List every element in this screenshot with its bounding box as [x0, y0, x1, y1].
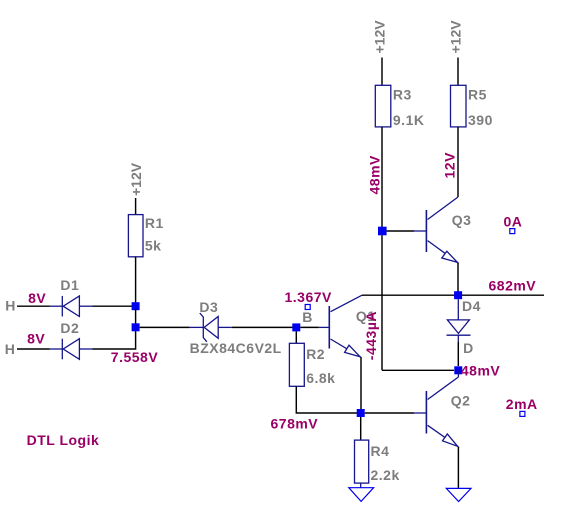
wire horizontal to 48mV node [382, 369, 454, 371]
wire R1 to junction [135, 257, 137, 303]
wire junction to D3 [140, 326, 190, 328]
wire output rail 682mV [362, 294, 544, 296]
wire D3 to node B [232, 326, 293, 328]
wire Q1 emitter down [360, 357, 362, 410]
svg-text:R5: R5 [468, 87, 487, 103]
wire input H bottom [17, 348, 50, 350]
transistor Q2 [414, 370, 458, 447]
svg-text:R3: R3 [393, 87, 412, 103]
wire junction to Q3 base [387, 230, 414, 232]
diode D1 [50, 296, 93, 317]
ground (Q2) [446, 488, 471, 501]
resistor R2 [289, 343, 304, 386]
wire Q3 emitter down to output rail [457, 263, 459, 292]
svg-text:2.2k: 2.2k [371, 467, 400, 483]
resistor R1 [128, 215, 143, 257]
wire D2 to junction column [93, 330, 136, 349]
svg-text:9.1K: 9.1K [393, 112, 425, 128]
svg-text:678mV: 678mV [271, 415, 319, 431]
node junction B [292, 323, 300, 331]
wire R4 to ground [360, 483, 362, 488]
svg-text:BZX84C6V2L: BZX84C6V2L [190, 340, 282, 356]
svg-text:7.558V: 7.558V [111, 349, 159, 365]
svg-text:D: D [463, 340, 474, 356]
svg-text:D2: D2 [60, 320, 79, 336]
wire +12V to R5 [457, 58, 459, 86]
node marker 0A (hollow) [510, 229, 515, 234]
svg-text:8V: 8V [27, 331, 45, 347]
node junction 48mV [454, 366, 462, 374]
svg-text:R2: R2 [306, 346, 325, 362]
svg-text:+12V: +12V [372, 20, 388, 54]
wire junction down (crosses output rail) [381, 235, 383, 370]
svg-text:R1: R1 [145, 215, 164, 231]
node junction 678mV [357, 409, 365, 417]
svg-text:-443µA: -443µA [363, 311, 379, 360]
wire D4 to 48mV node [457, 342, 459, 366]
resistor R5 [451, 85, 467, 127]
node marker B (hollow) [305, 305, 310, 310]
wire R2 bottom to node 678mV [296, 386, 357, 413]
svg-text:H: H [5, 298, 16, 314]
diode D4 [447, 299, 471, 342]
zener diode D3 [190, 313, 232, 342]
svg-text:+12V: +12V [448, 20, 464, 54]
wire +12V to R1 [135, 198, 137, 215]
svg-text:D1: D1 [60, 277, 79, 293]
svg-text:682mV: 682mV [489, 278, 537, 294]
svg-text:48mV: 48mV [367, 155, 383, 195]
wire Q2 emitter to ground [457, 447, 459, 488]
wire D1 to junction [93, 305, 134, 307]
wire R3 down to junction [381, 127, 383, 227]
node junction R3/Q3 base [378, 227, 387, 236]
svg-text:12V: 12V [442, 152, 458, 179]
svg-text:H: H [5, 341, 16, 357]
node junction D1/R1 [132, 302, 140, 310]
wire R5 down to Q3 collector [457, 127, 459, 197]
wire input H top [17, 305, 50, 307]
transistor Q1 [319, 295, 362, 357]
wire between junctions [135, 309, 137, 324]
svg-text:R4: R4 [371, 443, 390, 459]
ground (R4) [349, 488, 374, 502]
svg-text:5k: 5k [145, 237, 162, 253]
resistor R4 [355, 440, 369, 483]
svg-text:Q3: Q3 [452, 212, 472, 228]
svg-text:2mA: 2mA [506, 396, 538, 412]
svg-text:48mV: 48mV [461, 362, 501, 378]
svg-text:D3: D3 [199, 299, 218, 315]
wire node to Q2 base [365, 412, 414, 414]
node junction D2/D3 [132, 323, 140, 331]
svg-text:D4: D4 [462, 298, 481, 314]
svg-text:+12V: +12V [128, 162, 144, 196]
resistor R3 [375, 85, 391, 127]
svg-text:1.367V: 1.367V [285, 289, 333, 305]
diode D2 [50, 339, 93, 360]
wire node B to Q1 base [300, 326, 319, 328]
svg-text:8V: 8V [28, 290, 46, 306]
svg-text:DTL Logik: DTL Logik [27, 432, 100, 448]
wire +12V to R3 [381, 58, 383, 86]
node marker 2mA (hollow) [520, 411, 525, 416]
wire R2 top [295, 331, 297, 343]
node junction output [454, 291, 462, 299]
svg-text:Q2: Q2 [451, 392, 471, 408]
svg-text:0A: 0A [504, 213, 523, 229]
transistor Q3 [414, 197, 458, 263]
svg-text:6.8k: 6.8k [306, 370, 335, 386]
wire node down to R4 [360, 417, 362, 440]
svg-text:390: 390 [468, 112, 493, 128]
svg-text:B: B [302, 309, 313, 325]
